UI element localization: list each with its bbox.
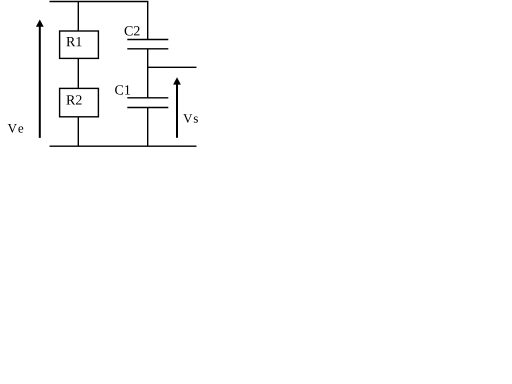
resistor R1 bbox=[60, 31, 99, 58]
wire top horizontal bbox=[50, 1, 149, 3]
wire right branch upper (top wire to C2) bbox=[147, 2, 149, 40]
wire R2 to bottom bbox=[77, 117, 79, 146]
wire right branch middle (C2 to C1) bbox=[147, 49, 149, 98]
wire bottom horizontal bbox=[50, 145, 197, 147]
arrow Ve bbox=[8, 20, 44, 138]
wire R1 to R2 bbox=[77, 58, 79, 88]
capacitor C1 bbox=[115, 85, 168, 107]
resistor R2 bbox=[60, 88, 99, 116]
wire output tap node bbox=[148, 66, 197, 68]
capacitor C2 bbox=[125, 26, 169, 49]
wire right branch lower (C1 to bottom) bbox=[147, 108, 149, 147]
wire top node to R1 bbox=[77, 2, 79, 32]
arrow Vs bbox=[173, 77, 198, 138]
